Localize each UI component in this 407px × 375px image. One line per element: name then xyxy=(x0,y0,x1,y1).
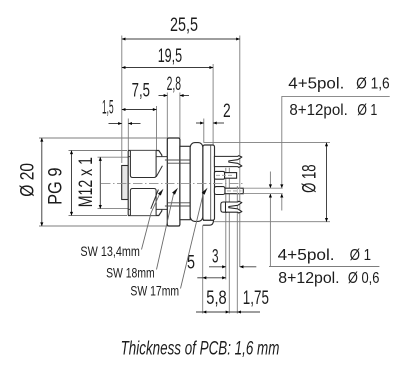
dimension 5 xyxy=(197,277,226,279)
svg-text:Ø 18: Ø 18 xyxy=(299,164,321,193)
svg-text:SW 18mm: SW 18mm xyxy=(106,265,155,280)
svg-text:3: 3 xyxy=(212,246,219,268)
svg-text:Ø 20: Ø 20 xyxy=(17,163,39,197)
centerline xyxy=(101,182,243,184)
dimension PG 9 xyxy=(69,150,128,152)
dimension D20 xyxy=(39,137,170,139)
connector: hex nut SW17 xyxy=(180,146,190,219)
dimension M12 x 1 xyxy=(98,156,129,158)
connector: threaded body outline xyxy=(128,151,162,216)
dimension 2,8 xyxy=(159,95,190,97)
svg-text:SW 13,4mm: SW 13,4mm xyxy=(80,244,139,259)
dimension 25,5 xyxy=(122,38,240,40)
connector: rear lower lug xyxy=(203,220,214,225)
dimension D18 xyxy=(204,142,331,144)
svg-text:Thickness of PCB: 1,6 mm: Thickness of PCB: 1,6 mm xyxy=(121,339,280,360)
svg-text:4+5pol.: 4+5pol. xyxy=(278,247,335,264)
svg-text:M12 x 1: M12 x 1 xyxy=(75,157,97,207)
extension line front face xyxy=(121,36,123,164)
faint verticals over pin 3 xyxy=(236,188,238,195)
connector: gasket D18 xyxy=(190,143,203,222)
extension line pocket edge xyxy=(156,106,158,151)
pin 2 xyxy=(214,171,224,179)
pin 3 extension lines xyxy=(243,187,282,189)
connector: flange xyxy=(167,138,180,226)
leader top label xyxy=(282,95,390,97)
extension line pin tips long xyxy=(239,36,241,268)
svg-text:5,8: 5,8 xyxy=(206,287,226,309)
svg-text:Ø 0,6: Ø 0,6 xyxy=(348,270,380,287)
svg-text:SW 17mm: SW 17mm xyxy=(130,283,179,298)
dimension 3 xyxy=(209,266,256,268)
extension line pin feature a xyxy=(225,168,227,280)
connector: front knob xyxy=(122,166,129,200)
svg-text:8+12pol.: 8+12pol. xyxy=(289,102,347,119)
extension line pin feature c xyxy=(236,186,238,314)
extension line flange right xyxy=(179,93,181,139)
dimension 1,5 xyxy=(109,123,141,125)
connector: rear insulator xyxy=(203,145,215,220)
connector: funnel lower diagonal xyxy=(151,190,159,209)
svg-text:PG 9: PG 9 xyxy=(45,167,67,204)
extension line knob rear xyxy=(127,119,129,151)
extension line flange left xyxy=(166,93,168,139)
svg-text:Ø 1,6: Ø 1,6 xyxy=(356,75,390,92)
pin 4 bottom fork xyxy=(221,202,227,212)
connector: flange and nut facet lines xyxy=(165,160,190,206)
svg-text:1,75: 1,75 xyxy=(243,287,269,309)
pin 3 center xyxy=(214,187,225,195)
pin 1 top fork xyxy=(214,156,242,168)
svg-text:19,5: 19,5 xyxy=(158,45,182,67)
svg-text:1,5: 1,5 xyxy=(102,97,114,119)
connector: lower pocket xyxy=(130,189,156,216)
extension line pin feature b xyxy=(228,168,230,314)
svg-text:25,5: 25,5 xyxy=(170,14,198,36)
svg-text:7,5: 7,5 xyxy=(132,80,150,102)
connector: rear insulator step xyxy=(210,146,212,221)
svg-text:4+5pol.: 4+5pol. xyxy=(288,75,344,92)
connector: thread minor lines xyxy=(128,156,167,158)
svg-text:2,8: 2,8 xyxy=(167,73,181,95)
svg-text:Ø 1: Ø 1 xyxy=(350,247,372,264)
connector: upper pocket xyxy=(130,151,156,178)
dimension 19,5 xyxy=(122,67,213,69)
svg-text:Ø 1: Ø 1 xyxy=(357,102,377,119)
dimension 5,8 and 1,75 xyxy=(196,311,260,313)
extension line insulator rear xyxy=(212,64,214,145)
connector: body silhouette xyxy=(128,151,162,216)
dimension 7,5 xyxy=(122,109,157,111)
leader bottom label xyxy=(269,266,379,268)
extension line rear body bottom xyxy=(202,225,204,313)
extension line gasket rear xyxy=(203,119,205,143)
svg-text:2: 2 xyxy=(223,100,231,122)
connector: funnel upper diagonal xyxy=(156,166,162,177)
svg-text:8+12pol.: 8+12pol. xyxy=(278,270,339,287)
dimension 2 xyxy=(196,122,224,124)
